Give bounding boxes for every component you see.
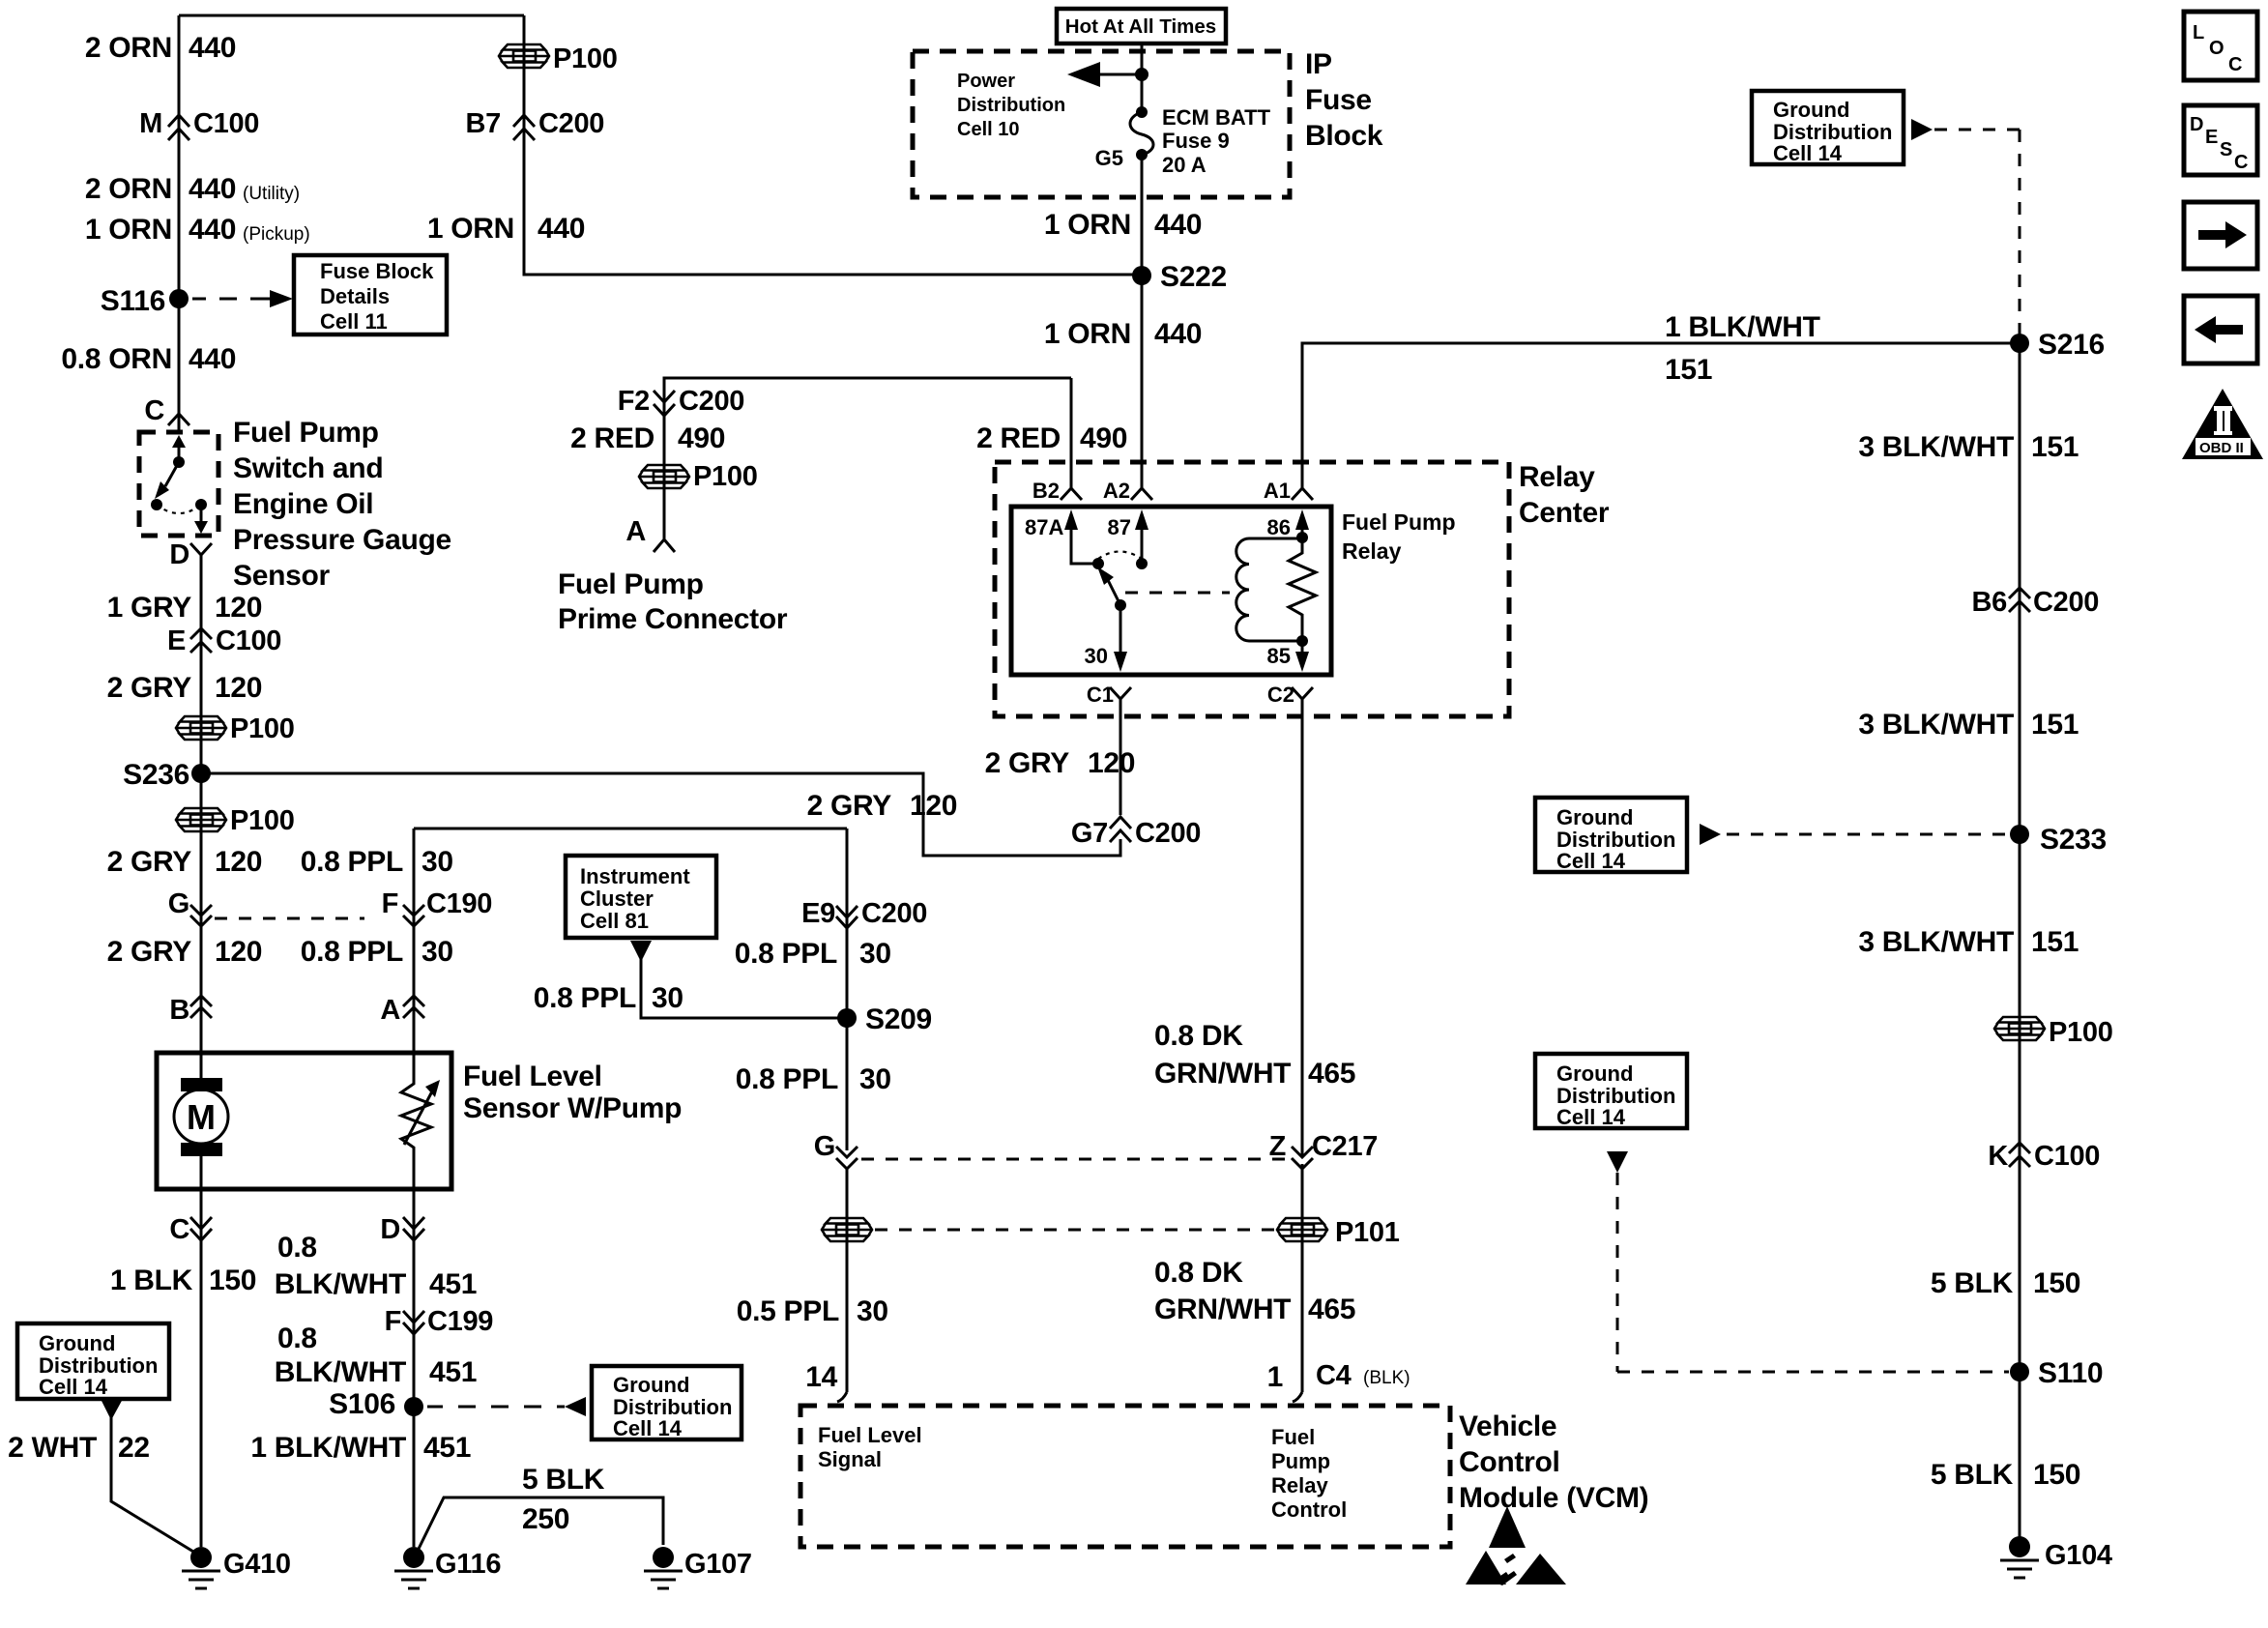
svg-text:440: 440	[189, 32, 236, 64]
svg-text:Fuel: Fuel	[1271, 1425, 1315, 1449]
svg-text:451: 451	[423, 1432, 471, 1464]
svg-text:Ground: Ground	[39, 1331, 115, 1355]
box IP Fuse Block dashed	[913, 51, 1290, 197]
svg-text:2 GRY: 2 GRY	[985, 747, 1070, 779]
svg-text:S209: S209	[865, 1003, 932, 1035]
wire 5 BLK 250	[419, 1497, 663, 1549]
junction dot	[1135, 68, 1149, 81]
svg-text:BLK/WHT: BLK/WHT	[275, 1356, 406, 1388]
wire sender ground	[413, 1186, 416, 1547]
wire G to pin 14	[846, 1169, 849, 1392]
svg-text:Ground: Ground	[613, 1373, 689, 1397]
svg-text:1 BLK: 1 BLK	[110, 1265, 193, 1296]
svg-text:K: K	[1988, 1141, 2008, 1172]
svg-text:G116: G116	[435, 1549, 501, 1580]
svg-text:151: 151	[2031, 431, 2079, 463]
switch throw dotted arc	[157, 505, 201, 513]
svg-text:F2: F2	[618, 386, 650, 417]
svg-text:A1: A1	[1264, 479, 1291, 503]
svg-text:Relay: Relay	[1271, 1473, 1328, 1497]
svg-text:P101: P101	[1335, 1217, 1400, 1248]
svg-text:C200: C200	[538, 108, 604, 139]
svg-text:2 WHT: 2 WHT	[8, 1432, 97, 1464]
svg-text:Cell 14: Cell 14	[39, 1375, 108, 1399]
svg-text:Engine Oil: Engine Oil	[233, 488, 373, 520]
svg-text:5 BLK: 5 BLK	[1931, 1267, 2014, 1299]
svg-text:Control: Control	[1459, 1446, 1560, 1478]
svg-text:S236: S236	[123, 759, 189, 791]
wire right ground column	[2019, 343, 2021, 1547]
svg-text:G: G	[168, 888, 189, 919]
svg-text:Pump: Pump	[1271, 1449, 1330, 1473]
svg-text:Fuel Pump: Fuel Pump	[233, 417, 379, 449]
svg-text:30: 30	[859, 938, 891, 970]
svg-text:30: 30	[422, 936, 453, 968]
svg-text:E9: E9	[801, 898, 835, 929]
node S110	[2010, 1362, 2029, 1381]
svg-text:A2: A2	[1103, 479, 1130, 503]
svg-text:440: 440	[1154, 209, 1202, 241]
svg-text:1 ORN: 1 ORN	[1044, 318, 1131, 350]
svg-text:Center: Center	[1519, 497, 1610, 529]
svg-text:1 ORN: 1 ORN	[85, 214, 172, 246]
svg-text:465: 465	[1308, 1294, 1355, 1325]
svg-text:0.8 PPL: 0.8 PPL	[301, 846, 403, 878]
svg-text:Ground: Ground	[1773, 98, 1849, 122]
svg-text:14: 14	[805, 1361, 837, 1393]
switch output arrow down	[200, 505, 203, 522]
icon arrow right	[2184, 202, 2257, 269]
svg-text:20 A: 20 A	[1162, 153, 1207, 177]
resistor (fuel level sender)	[401, 1053, 431, 1189]
svg-text:Block: Block	[1305, 120, 1383, 152]
svg-text:IP: IP	[1305, 48, 1332, 80]
svg-text:C200: C200	[2033, 587, 2099, 618]
relay coil	[1236, 538, 1302, 641]
svg-text:P100: P100	[553, 44, 618, 74]
svg-text:P100: P100	[230, 713, 295, 744]
svg-text:G: G	[814, 1131, 835, 1162]
svg-text:BLK/WHT: BLK/WHT	[275, 1268, 406, 1300]
svg-text:120: 120	[215, 936, 262, 968]
wire B7 column	[524, 15, 1142, 275]
wire cluster to S209	[630, 941, 652, 962]
svg-text:30: 30	[1085, 644, 1108, 668]
svg-text:1 ORN: 1 ORN	[1044, 209, 1131, 241]
svg-text:Relay: Relay	[1342, 538, 1402, 564]
svg-text:151: 151	[2031, 926, 2079, 958]
svg-text:3 BLK/WHT: 3 BLK/WHT	[1858, 431, 2014, 463]
svg-text:E: E	[167, 625, 186, 656]
wire top horizontal ORN 440	[179, 15, 524, 17]
svg-text:G107: G107	[684, 1549, 752, 1580]
switch contact right	[195, 499, 207, 510]
ground G116	[403, 1547, 424, 1568]
node S216	[2010, 334, 2029, 353]
svg-text:Cell 14: Cell 14	[1556, 849, 1626, 873]
svg-text:B6: B6	[1972, 587, 2008, 618]
svg-text:S222: S222	[1160, 261, 1227, 293]
svg-text:2 RED: 2 RED	[570, 422, 654, 454]
svg-text:0.8 PPL: 0.8 PPL	[534, 982, 636, 1014]
svg-text:G5: G5	[1095, 146, 1123, 170]
connector P100 (top)	[499, 44, 549, 68]
wire hot feed	[1141, 44, 1144, 112]
ground G107	[653, 1547, 674, 1568]
svg-text:87A: 87A	[1025, 515, 1063, 539]
svg-text:Sensor: Sensor	[233, 560, 331, 592]
svg-text:151: 151	[1665, 354, 1712, 386]
svg-text:22: 22	[118, 1432, 150, 1464]
svg-text:490: 490	[1080, 422, 1127, 454]
svg-text:30: 30	[422, 846, 453, 878]
fuse ECM BATT Fuse 9 20 A	[1136, 106, 1148, 118]
svg-text:Prime Connector: Prime Connector	[558, 603, 788, 635]
motor M (fuel pump)	[200, 1053, 203, 1189]
relay actuation dashed	[1125, 592, 1230, 595]
switch blade	[165, 462, 179, 486]
svg-text:S110: S110	[2038, 1357, 2103, 1389]
svg-text:0.8 PPL: 0.8 PPL	[301, 936, 403, 968]
svg-text:451: 451	[429, 1356, 477, 1388]
wire dashed G to Z	[861, 1158, 1286, 1161]
svg-text:C1: C1	[1087, 683, 1114, 707]
svg-text:Signal: Signal	[818, 1447, 882, 1471]
relay switch throw arc dashed	[1098, 552, 1142, 560]
svg-text:120: 120	[910, 790, 957, 822]
svg-text:Fuel Pump: Fuel Pump	[558, 568, 704, 600]
svg-text:1 BLK/WHT: 1 BLK/WHT	[1665, 311, 1820, 343]
svg-text:Cell 14: Cell 14	[1556, 1105, 1626, 1129]
svg-text:G410: G410	[223, 1549, 291, 1580]
svg-text:Instrument: Instrument	[580, 864, 690, 888]
connector P101 (right)	[1277, 1218, 1327, 1241]
svg-text:Vehicle: Vehicle	[1459, 1410, 1556, 1442]
svg-text:D: D	[169, 539, 189, 570]
box Ground Distribution Cell 14 (S110)	[1535, 1054, 1687, 1128]
switch box dashed (Fuel Pump Switch)	[139, 432, 218, 536]
svg-text:2 ORN: 2 ORN	[85, 32, 172, 64]
svg-text:2 GRY: 2 GRY	[107, 846, 192, 878]
svg-text:465: 465	[1308, 1058, 1355, 1090]
svg-text:C217: C217	[1312, 1131, 1378, 1162]
svg-text:C100: C100	[216, 625, 281, 656]
svg-text:A: A	[625, 516, 646, 547]
icon OBD II triangle	[2182, 389, 2263, 459]
svg-text:440: 440	[189, 343, 236, 375]
svg-text:86: 86	[1267, 515, 1291, 539]
svg-text:G104: G104	[2045, 1540, 2112, 1571]
relay coil resistor	[1289, 538, 1316, 641]
relay switch blade	[1108, 580, 1120, 605]
svg-text:A: A	[380, 995, 400, 1026]
svg-text:5 BLK: 5 BLK	[1931, 1459, 2014, 1491]
svg-text:30: 30	[652, 982, 683, 1014]
svg-text:B: B	[169, 995, 189, 1026]
svg-text:Cluster: Cluster	[580, 887, 654, 911]
wire dashed to S110	[1607, 1151, 1628, 1173]
wire A1 to S216 (1 BLK/WHT 151)	[1302, 343, 2020, 488]
wire dashed S116 to fuse block details	[192, 298, 281, 301]
svg-text:S106: S106	[329, 1388, 395, 1420]
svg-text:440: 440	[538, 213, 585, 245]
wire S236 to G7 C200 (2 GRY 120)	[201, 773, 1120, 856]
svg-text:30: 30	[857, 1295, 888, 1327]
svg-text:C4: C4	[1316, 1360, 1352, 1391]
svg-text:G7: G7	[1071, 818, 1108, 849]
wire PPL horizontal to E9	[414, 828, 847, 830]
svg-text:Fuel Pump: Fuel Pump	[1342, 509, 1456, 535]
wire left ORN feed vertical	[178, 15, 181, 432]
arrow to power distribution	[1098, 73, 1142, 76]
svg-text:P100: P100	[693, 461, 758, 492]
svg-text:Distribution: Distribution	[957, 95, 1065, 116]
svg-text:Z: Z	[1269, 1131, 1286, 1162]
svg-text:Control: Control	[1271, 1497, 1347, 1522]
svg-text:F: F	[382, 888, 398, 919]
svg-text:B2: B2	[1032, 479, 1060, 503]
svg-text:440: 440	[189, 214, 236, 246]
box Ground Distribution Cell 14 (S216)	[1752, 91, 1904, 164]
box Ground Distribution Cell 14 (left)	[17, 1323, 169, 1399]
svg-text:440: 440	[1154, 318, 1202, 350]
wire A feed vertical	[413, 829, 416, 1053]
svg-text:(BLK): (BLK)	[1363, 1368, 1410, 1388]
svg-text:0.8 PPL: 0.8 PPL	[735, 938, 837, 970]
svg-text:M: M	[139, 108, 162, 139]
svg-text:GRN/WHT: GRN/WHT	[1154, 1294, 1291, 1325]
ground G410	[190, 1547, 212, 1568]
wire dashed to S233	[1700, 824, 1721, 845]
svg-text:Cell 10: Cell 10	[957, 119, 1019, 140]
wire fuse to S222 to relay A2	[1141, 155, 1144, 488]
svg-text:Ground: Ground	[1556, 1061, 1633, 1086]
wire dashed G to F	[215, 917, 364, 920]
svg-text:Cell 11: Cell 11	[320, 309, 388, 334]
svg-text:120: 120	[215, 846, 262, 878]
connector P100 (prime)	[639, 465, 689, 488]
svg-text:490: 490	[678, 422, 725, 454]
svg-text:150: 150	[2033, 1459, 2080, 1491]
svg-text:2 ORN: 2 ORN	[85, 173, 172, 205]
svg-text:2 GRY: 2 GRY	[107, 936, 192, 968]
wire F2 feed	[664, 378, 1071, 538]
svg-text:(Pickup): (Pickup)	[243, 224, 310, 245]
svg-text:151: 151	[2031, 709, 2079, 741]
svg-text:P100: P100	[2049, 1017, 2113, 1048]
connector P101 (left)	[822, 1218, 872, 1241]
wire pump ground	[200, 1189, 203, 1547]
wire 2 WHT 22 from ground distribution	[101, 1399, 123, 1420]
svg-text:C: C	[2228, 54, 2242, 75]
wire D to sensor box	[200, 555, 203, 1053]
svg-text:C200: C200	[679, 386, 744, 417]
box Ground Distribution Cell 14 (S233)	[1535, 798, 1687, 872]
svg-text:F: F	[385, 1306, 401, 1337]
svg-text:ECM BATT: ECM BATT	[1162, 105, 1271, 130]
node S233	[2010, 825, 2029, 844]
box Fuel Pump Relay	[1011, 507, 1331, 675]
box Instrument Cluster Cell 81	[566, 856, 716, 938]
box Fuel Level Sensor W/Pump	[157, 1053, 451, 1189]
svg-text:B7: B7	[466, 108, 501, 139]
icon DESC	[2184, 105, 2257, 175]
svg-text:C: C	[169, 1214, 189, 1245]
svg-text:C199: C199	[427, 1306, 493, 1337]
svg-text:0.8 DK: 0.8 DK	[1154, 1257, 1243, 1289]
svg-text:440: 440	[189, 173, 236, 205]
sender wiper arrow	[404, 1090, 433, 1145]
svg-text:L: L	[2193, 22, 2204, 44]
svg-text:3 BLK/WHT: 3 BLK/WHT	[1858, 709, 2014, 741]
svg-text:30: 30	[859, 1063, 891, 1095]
icon arrow left	[2184, 296, 2257, 363]
svg-text:Ground: Ground	[1556, 805, 1633, 829]
svg-text:2 GRY: 2 GRY	[807, 790, 892, 822]
ESD symbol	[1466, 1506, 1566, 1585]
svg-text:1: 1	[1267, 1361, 1283, 1393]
svg-text:0.8: 0.8	[277, 1323, 317, 1354]
svg-text:2 GRY: 2 GRY	[107, 672, 192, 704]
box Fuse Block Details Cell 11	[294, 255, 447, 334]
svg-text:C: C	[2234, 152, 2248, 173]
svg-text:Cell 14: Cell 14	[1773, 141, 1843, 165]
svg-text:O: O	[2209, 38, 2224, 59]
icon LOC	[2184, 12, 2257, 80]
node S222	[1132, 266, 1151, 285]
svg-text:Fuse 9: Fuse 9	[1162, 129, 1230, 153]
wire dashed P101	[875, 1229, 1274, 1232]
svg-text:C: C	[144, 395, 164, 426]
svg-text:C100: C100	[193, 108, 259, 139]
svg-text:Switch and: Switch and	[233, 452, 383, 484]
svg-text:S116: S116	[101, 285, 165, 317]
svg-text:S: S	[2220, 139, 2232, 160]
svg-text:1 ORN: 1 ORN	[427, 213, 514, 245]
svg-text:Fuse Block: Fuse Block	[320, 259, 434, 283]
svg-text:C100: C100	[2034, 1141, 2100, 1172]
svg-text:C200: C200	[861, 898, 927, 929]
svg-text:Power: Power	[957, 71, 1015, 92]
svg-text:GRN/WHT: GRN/WHT	[1154, 1058, 1291, 1090]
svg-text:Fuel Level: Fuel Level	[818, 1423, 922, 1447]
svg-text:P100: P100	[230, 805, 295, 836]
svg-text:451: 451	[429, 1268, 477, 1300]
svg-text:Cell 81: Cell 81	[580, 909, 649, 933]
svg-text:S216: S216	[2038, 329, 2105, 361]
svg-text:120: 120	[215, 672, 262, 704]
svg-text:1 GRY: 1 GRY	[107, 592, 192, 624]
svg-text:S233: S233	[2040, 824, 2107, 856]
box Relay Center dashed	[995, 462, 1509, 716]
connector P100 (upper)	[176, 716, 226, 740]
svg-text:0.8 DK: 0.8 DK	[1154, 1020, 1243, 1052]
svg-text:Module (VCM): Module (VCM)	[1459, 1482, 1648, 1514]
svg-text:Hot At All Times: Hot At All Times	[1065, 15, 1216, 38]
svg-text:Fuse: Fuse	[1305, 84, 1372, 116]
svg-text:D: D	[2190, 114, 2203, 135]
box VCM dashed	[800, 1406, 1450, 1547]
svg-text:150: 150	[2033, 1267, 2080, 1299]
svg-text:0.8: 0.8	[277, 1232, 317, 1264]
svg-text:120: 120	[215, 592, 262, 624]
svg-text:Sensor W/Pump: Sensor W/Pump	[463, 1092, 682, 1124]
svg-text:Relay: Relay	[1519, 461, 1595, 493]
svg-text:Fuel Level: Fuel Level	[463, 1061, 602, 1092]
ground G104	[2009, 1536, 2030, 1557]
svg-text:Details: Details	[320, 284, 390, 308]
svg-text:C190: C190	[426, 888, 492, 919]
svg-text:OBD II: OBD II	[2199, 440, 2244, 456]
svg-text:1 BLK/WHT: 1 BLK/WHT	[250, 1432, 406, 1464]
svg-text:D: D	[380, 1214, 400, 1245]
box Hot At All Times	[1057, 9, 1226, 44]
connector P100 (lower)	[176, 808, 226, 831]
svg-text:0.8 PPL: 0.8 PPL	[736, 1063, 838, 1095]
svg-text:150: 150	[209, 1265, 256, 1296]
svg-text:87: 87	[1108, 515, 1131, 539]
svg-text:3 BLK/WHT: 3 BLK/WHT	[1858, 926, 2014, 958]
svg-text:C2: C2	[1267, 683, 1294, 707]
svg-text:2 RED: 2 RED	[976, 422, 1061, 454]
node S209	[837, 1008, 857, 1028]
wire dashed to S216	[1911, 119, 1933, 140]
wire dashed S106 to ground distribution	[427, 1406, 565, 1409]
svg-text:85: 85	[1267, 644, 1291, 668]
wire E9 drop	[846, 829, 849, 1150]
svg-text:5 BLK: 5 BLK	[522, 1464, 605, 1496]
svg-text:120: 120	[1088, 747, 1135, 779]
svg-text:C200: C200	[1135, 818, 1201, 849]
svg-text:M: M	[187, 1097, 216, 1137]
wire Z to pin 1	[1301, 1164, 1304, 1392]
svg-text:Pressure Gauge: Pressure Gauge	[233, 524, 451, 556]
connector P100 (right)	[1994, 1017, 2045, 1040]
box Ground Distribution Cell 14 (S106)	[592, 1366, 741, 1439]
svg-text:0.5 PPL: 0.5 PPL	[737, 1295, 839, 1327]
svg-text:E: E	[2205, 127, 2218, 148]
switch fixed contact arrow up	[178, 447, 181, 462]
svg-text:0.8 ORN: 0.8 ORN	[61, 343, 172, 375]
svg-text:(Utility): (Utility)	[243, 184, 300, 204]
svg-text:Cell 14: Cell 14	[613, 1416, 683, 1440]
svg-text:250: 250	[522, 1503, 569, 1535]
